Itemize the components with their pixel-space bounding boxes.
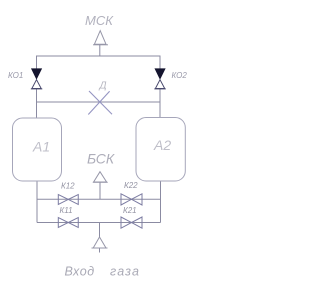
svg-text:А2: А2 [153,137,171,153]
svg-text:Вход: Вход [65,265,95,279]
svg-text:КО2: КО2 [172,71,188,80]
svg-text:К11: К11 [60,206,73,215]
svg-text:БСК: БСК [87,151,115,167]
svg-text:А1: А1 [32,139,50,155]
svg-text:КО1: КО1 [8,71,23,80]
svg-text:МСК: МСК [85,13,114,28]
svg-text:К22: К22 [124,181,138,190]
svg-text:газа: газа [110,265,140,279]
svg-text:К12: К12 [61,182,75,191]
svg-text:Д: Д [99,81,107,92]
svg-text:К21: К21 [123,206,137,215]
